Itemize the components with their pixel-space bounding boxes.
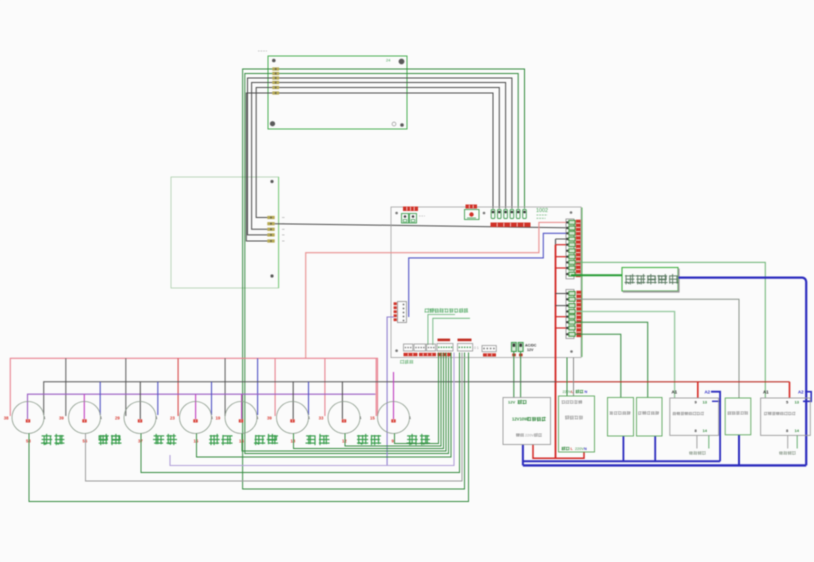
SW6 function label xyxy=(306,434,330,445)
SW8 right pin label xyxy=(409,416,411,420)
svg-text:38: 38 xyxy=(4,416,9,421)
M1 label 12V10W xyxy=(512,417,546,422)
SW8 function label xyxy=(407,434,430,445)
SW3 bottom pin label xyxy=(138,439,143,444)
module M4 box xyxy=(637,398,663,437)
fiducial ring xyxy=(392,122,396,126)
SW5 bottom pin label xyxy=(239,439,244,444)
fiducial dot e xyxy=(570,350,573,353)
K1 pin 14 xyxy=(703,428,708,433)
fiducial dot b xyxy=(483,212,486,215)
wire red stub S1 pin9 xyxy=(556,267,566,269)
K1 inner label xyxy=(673,412,704,416)
connector B2 xyxy=(414,344,426,351)
dark bus 1 xyxy=(44,382,556,415)
K2 pin 13 xyxy=(795,400,800,405)
wire red stub S2 pin5 xyxy=(556,316,566,318)
svg-text:12V: 12V xyxy=(508,400,515,405)
wire palegreen S2 pin4 to contactor K1 A1 xyxy=(575,312,674,399)
wire magenta drop button4 xyxy=(195,394,197,419)
wire green S2 pin8 to module M3 xyxy=(575,334,621,397)
svg-text:1002: 1002 xyxy=(536,208,548,214)
M2 bottom label xyxy=(562,447,588,451)
svg-text:15: 15 xyxy=(370,416,375,421)
svg-text:19: 19 xyxy=(216,416,221,421)
pushbutton SW8 body xyxy=(378,402,410,434)
ozone generator label xyxy=(625,274,679,284)
wire red stub S1 pin5 xyxy=(556,244,566,246)
wire red drop K2 coil xyxy=(789,382,791,398)
svg-text:24: 24 xyxy=(386,58,391,63)
silkscreen label row under P3 (red) xyxy=(491,223,531,228)
red drop to button4 left pin xyxy=(177,358,179,416)
wire note leader 2 xyxy=(433,318,470,345)
wire green Q2 to M1 xyxy=(520,352,522,398)
mounting hole top-right xyxy=(399,59,405,65)
svg-text:220V: 220V xyxy=(575,447,584,451)
wire SW8 bottom to controller xyxy=(395,353,439,444)
silkscreen label 24 xyxy=(386,58,391,63)
silkscreen label CN1 (red) xyxy=(403,207,418,212)
silkscreen red label under B6 xyxy=(483,353,496,356)
svg-text:14: 14 xyxy=(703,428,708,433)
wire SW2 bottom to controller xyxy=(86,353,463,482)
svg-text:12V10W: 12V10W xyxy=(512,417,528,422)
mounting hole bottom-left xyxy=(270,121,275,126)
wire green bus B (long wrap down to bottom connector) xyxy=(245,74,449,454)
svg-text:1: 1 xyxy=(308,416,310,420)
M4 label xyxy=(638,411,659,415)
silkscreen red label row under B1-B3 xyxy=(404,353,452,356)
dark drop to button2 left pin xyxy=(65,358,67,416)
pink drop to button8 left pin xyxy=(375,358,377,416)
pushbutton SW7 body xyxy=(328,402,360,434)
wire SW7 bottom to controller xyxy=(345,353,441,447)
wire display pin 3 to controller header xyxy=(279,78,512,209)
wire gray S2 pin2 to relay M6 xyxy=(575,299,739,398)
svg-text:14: 14 xyxy=(795,428,800,433)
connector J1 pads (display board left edge) xyxy=(272,67,279,94)
relay strip S1 pins xyxy=(566,220,575,276)
relay strip S2 pins xyxy=(566,292,575,337)
svg-text:A1: A1 xyxy=(672,390,678,395)
SW7 left pin label xyxy=(319,416,324,421)
wire salmon feed to S1 xyxy=(306,222,566,358)
svg-text:1: 1 xyxy=(44,416,46,420)
svg-text:1: 1 xyxy=(409,416,411,420)
svg-text:N: N xyxy=(585,390,588,394)
svg-text:A2: A2 xyxy=(798,390,804,395)
purple bus xyxy=(28,394,376,419)
SW8 left pin label xyxy=(370,416,375,421)
wire keypad pad 2 to relay strip xyxy=(275,224,566,228)
svg-text:1: 1 xyxy=(360,416,362,420)
fiducial dot d xyxy=(395,349,398,352)
terminal Q2 (AC input -) xyxy=(518,343,523,352)
wire red stub S2 pin7 xyxy=(556,327,566,329)
svg-text:1: 1 xyxy=(211,416,213,420)
SW7 function label xyxy=(357,434,381,445)
K1 label A2 xyxy=(705,390,711,395)
wire dark drop button3 xyxy=(139,382,141,419)
K1 pin 13 xyxy=(703,400,708,405)
wire display pin 6 to controller header xyxy=(279,93,493,209)
SW3 left pin label xyxy=(115,416,120,421)
silkscreen red bar above B4 xyxy=(438,339,451,342)
display board PCB outline xyxy=(268,56,407,129)
wire blue M1 output drop xyxy=(522,445,524,466)
pink bus (button common) xyxy=(10,358,377,416)
SW1 left pin label xyxy=(4,416,9,421)
svg-text:1: 1 xyxy=(100,416,102,420)
pushbutton SW3 body xyxy=(124,402,156,434)
SW6 left pin label xyxy=(267,416,272,421)
neutral blue bus lower xyxy=(523,464,806,466)
pink drop to button6 left pin xyxy=(274,358,276,416)
wire green bus A (long wrap down to bottom connector) xyxy=(243,69,465,489)
SW5 right pin label xyxy=(257,416,259,420)
connector J2 pads (keypad board right edge) xyxy=(267,216,274,243)
M2 inner label 1 xyxy=(562,400,583,404)
silkscreen label SW1 (red) xyxy=(466,205,478,209)
keypad board right edge trace xyxy=(278,177,280,288)
M1 label 12V out xyxy=(508,400,527,405)
SW2 bottom pin label xyxy=(83,439,88,444)
mounting hole left-board bottom xyxy=(270,274,273,277)
svg-text:12V: 12V xyxy=(527,348,534,352)
blue drop to button5 right pin xyxy=(257,358,259,415)
buzzer SW1 xyxy=(465,210,480,220)
M6 label xyxy=(728,411,748,415)
K2 fuse leads xyxy=(788,435,798,448)
wire display pin 4 to controller header xyxy=(279,83,506,209)
svg-text:0 1: 0 1 xyxy=(474,346,479,350)
svg-text:29: 29 xyxy=(115,416,120,421)
wire blue K2 A2 elbow xyxy=(803,392,811,402)
wire blue pin button4 xyxy=(211,382,213,415)
wire blue pin button3 xyxy=(157,382,159,415)
wire green S1 pin8 to contactor K2 A1 xyxy=(575,262,765,398)
svg-text:33: 33 xyxy=(319,416,324,421)
ozone generator box xyxy=(622,268,680,292)
contactor K1 box xyxy=(670,398,719,435)
pink drop to button7 left pin xyxy=(324,358,326,416)
lavender return wire xyxy=(170,353,454,466)
M1 label AC input xyxy=(516,433,542,437)
svg-text:13: 13 xyxy=(703,400,708,405)
connector B1 xyxy=(404,344,413,351)
power red trunk xyxy=(555,239,557,458)
M2 top label xyxy=(563,390,588,394)
M2 inner label 2 xyxy=(565,415,583,419)
K2 pin 8 xyxy=(786,428,789,433)
relay strip S2 red label column xyxy=(576,291,581,337)
wire display pin 6 wrap to keypad pad xyxy=(246,93,272,241)
wire dark drop button7 xyxy=(341,382,343,419)
wire gray mains N to M2 xyxy=(573,358,575,397)
svg-text:39: 39 xyxy=(59,416,64,421)
wire dark stub S2 pin1 xyxy=(556,293,566,295)
wire display pin 4 wrap to keypad pad xyxy=(252,83,273,230)
controller board right edge trace xyxy=(581,208,583,358)
SW5 left pin label xyxy=(216,416,221,421)
silkscreen red marks under Q1 Q2 xyxy=(512,354,522,357)
relay strip S1 red label column xyxy=(576,220,581,277)
label AC/DC 12V xyxy=(525,344,537,352)
connector B3 xyxy=(427,344,436,351)
neutral blue bus upper xyxy=(523,460,720,462)
svg-text:39: 39 xyxy=(267,416,272,421)
SW6 bottom pin label xyxy=(291,439,296,444)
K2 inner label xyxy=(764,412,795,416)
wire blue pin button6 xyxy=(308,382,310,415)
wire display pin 3 wrap to keypad pad xyxy=(248,78,273,235)
wire violet J5 drop xyxy=(387,317,394,466)
svg-text:13: 13 xyxy=(795,400,800,405)
wire green S2 pin6 to module M4 xyxy=(575,322,648,397)
wire blue K1 A2 drop xyxy=(711,392,720,462)
wire SW6 bottom to controller xyxy=(294,353,444,449)
svg-text:220V: 220V xyxy=(525,433,534,437)
K2 fuse label xyxy=(779,451,795,455)
pump switch M2 box xyxy=(559,396,595,452)
terminal Q1 (AC input +) xyxy=(512,343,517,352)
wire red M1 to M2 loop xyxy=(533,445,584,459)
K1 label A1 xyxy=(672,390,678,395)
K2 label A1 xyxy=(763,390,769,395)
wire display pin 5 to controller header xyxy=(279,88,499,209)
connector J5 red pads xyxy=(394,302,397,321)
terminal block CN1 xyxy=(402,214,417,224)
silkscreen text top-left corner xyxy=(258,50,267,52)
wire dark stub S2 pin3 xyxy=(556,305,566,307)
wire green mains L to M2 xyxy=(566,358,568,397)
SW4 function label xyxy=(209,434,232,445)
power supply M1 box xyxy=(503,398,551,445)
SW2 left pin label xyxy=(59,416,64,421)
fiducial dot c xyxy=(570,211,573,214)
SW1 function label xyxy=(41,434,64,445)
wire display pin 5 wrap to keypad pad xyxy=(256,88,272,218)
SW5 function label xyxy=(254,434,278,445)
wire magenta drop button5 xyxy=(241,394,243,419)
silkscreen text right of CN1 xyxy=(419,215,425,217)
silkscreen red bar above B5 xyxy=(458,339,472,342)
wire red stub S1 pin7 xyxy=(556,256,566,258)
silkscreen green note above bottom connectors xyxy=(425,308,469,313)
contactor K2 box xyxy=(761,398,811,435)
pushbutton SW5 body xyxy=(225,402,257,434)
SW7 bottom pin label xyxy=(342,439,347,444)
M3 label xyxy=(610,411,631,415)
keypad board PCB outline xyxy=(171,177,279,288)
mounting hole left-board top xyxy=(270,180,273,183)
connector B4 xyxy=(437,344,453,352)
connector B6 xyxy=(482,346,496,352)
dark drop to button5 left pin xyxy=(224,358,226,416)
pin number labels J1 xyxy=(266,69,269,93)
silkscreen green text below board xyxy=(400,360,413,364)
SW1 right pin label xyxy=(44,416,46,420)
mounting hole bottom-right xyxy=(400,123,404,127)
SW7 right pin label xyxy=(360,416,362,420)
svg-text:N: N xyxy=(584,447,587,451)
wire dark drop button6 xyxy=(292,382,294,419)
module M3 box xyxy=(608,398,634,437)
SW8 bottom pin label xyxy=(392,439,395,444)
silkscreen subtext 1002a xyxy=(537,214,548,216)
wire blue pin button2 xyxy=(99,382,101,415)
SW3 function label xyxy=(153,434,177,445)
live red bus xyxy=(556,381,790,383)
pushbutton SW1 body xyxy=(12,402,44,434)
silkscreen subtext 1002b xyxy=(537,217,546,219)
wire blue stub M3 xyxy=(622,436,624,461)
svg-text:A2: A2 xyxy=(705,390,711,395)
svg-text:23: 23 xyxy=(170,416,175,421)
wire green S1 to ozone box xyxy=(571,274,622,276)
silkscreen tiny gray 01 xyxy=(474,346,479,350)
wire dark stub S1 pin4 xyxy=(556,238,566,240)
K1 pin 9 xyxy=(695,400,698,405)
K2 pin 5t xyxy=(786,400,789,405)
wire display pin 2 to controller header xyxy=(279,74,518,209)
wire SW1 bottom to controller xyxy=(29,353,469,502)
SW2 function label xyxy=(99,434,122,445)
pin header P3 (6-pin, to display board) xyxy=(491,210,526,219)
wire magenta drop button2 xyxy=(83,394,85,419)
connector J5 body xyxy=(398,302,407,323)
SW2 right pin label xyxy=(100,416,102,420)
wire display pin 1 to controller header xyxy=(279,69,524,209)
SW4 left pin label xyxy=(170,416,175,421)
pushbutton SW6 body xyxy=(277,402,309,434)
SW3 right pin label xyxy=(156,416,158,420)
SW1 bottom pin label xyxy=(26,439,31,444)
K1 fuse label xyxy=(689,451,705,455)
module M6 box xyxy=(725,398,751,435)
K1 pin 5 xyxy=(695,428,698,433)
SW4 right pin label xyxy=(211,416,213,420)
K2 label A2 xyxy=(798,390,804,395)
controller board PCB outline xyxy=(391,207,581,358)
svg-text:1: 1 xyxy=(156,416,158,420)
wire blue stub M4 xyxy=(654,436,656,461)
relay strip S2 body xyxy=(566,290,574,339)
SW6 right pin label xyxy=(308,416,310,420)
silkscreen designator 1002 xyxy=(536,208,548,214)
K1 fuse leads xyxy=(697,435,709,448)
svg-text:A1: A1 xyxy=(763,390,769,395)
mounting hole top-left xyxy=(272,59,276,63)
wire note leader 1 xyxy=(428,315,455,346)
pushbutton SW2 body xyxy=(69,402,101,434)
wire SW4 bottom to controller xyxy=(197,353,452,458)
fiducial dot a xyxy=(395,212,398,215)
wire blue ozone to right trunk xyxy=(679,278,807,466)
svg-text:1: 1 xyxy=(257,416,259,420)
wire blue M6 output xyxy=(738,435,740,466)
pushbutton SW4 body xyxy=(180,402,212,434)
wire SW3 bottom to controller xyxy=(141,353,460,473)
wire magenta drop button8 xyxy=(393,372,395,419)
wire green Q1 to M1 xyxy=(513,352,515,398)
relay strip S1 body xyxy=(566,219,574,279)
pin number labels J2 xyxy=(282,218,285,242)
wire red drop K1 coil xyxy=(697,382,699,398)
wire blue J5 to S1 xyxy=(409,233,566,317)
connector B5 xyxy=(458,344,473,352)
wire SW5 bottom to controller xyxy=(242,353,446,452)
SW4 bottom pin label xyxy=(194,439,199,444)
K2 pin 14 xyxy=(795,428,800,433)
dark drop to button3 left pin xyxy=(125,358,127,416)
